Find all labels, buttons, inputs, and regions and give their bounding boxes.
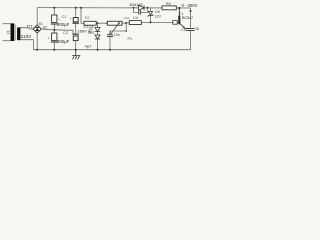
bridge rectifier B1 diamond	[33, 25, 41, 33]
svg-text:BC547: BC547	[182, 16, 193, 20]
node wiper corner	[125, 30, 127, 32]
transformer Tr1 secondary winding	[17, 27, 20, 40]
transistor T1	[177, 8, 190, 29]
svg-text:10k: 10k	[133, 16, 139, 20]
wire mains bottom lead	[3, 40, 11, 42]
capacitor C3	[70, 8, 79, 34]
bridge inner diode	[35, 28, 39, 31]
wire R4 to base	[141, 21, 173, 23]
capacitor C5	[107, 31, 113, 50]
zener D2	[95, 35, 100, 39]
wire secondary bottom to ground rail	[20, 40, 33, 50]
node D6 bottom	[150, 21, 152, 23]
svg-text:C6: C6	[181, 28, 186, 32]
svg-text:9V1: 9V1	[88, 31, 95, 35]
svg-text:1N4148: 1N4148	[129, 3, 142, 7]
svg-text:+: +	[70, 17, 72, 21]
node zener tap	[97, 22, 99, 24]
zener D1	[95, 28, 100, 32]
diode D5 on rail	[139, 5, 144, 10]
svg-text:0 - 300V: 0 - 300V	[182, 3, 198, 8]
wire bridge AC2 / midline to C3C4 midpoint	[41, 29, 75, 34]
node ground C4	[75, 49, 77, 51]
wire secondary top to bridge	[20, 28, 33, 29]
resistor R2 feed wire	[81, 8, 84, 23]
ground symbol (M)	[72, 50, 80, 60]
node rail loop right	[147, 7, 149, 9]
node output	[190, 10, 192, 12]
svg-text:4µ7: 4µ7	[85, 44, 93, 49]
transformer core	[15, 25, 17, 41]
wire mains top lead	[3, 23, 11, 25]
transformer Tr1 primary winding	[11, 23, 15, 41]
wire ground rail	[33, 49, 190, 51]
resistor R8 on rail	[162, 6, 176, 10]
svg-text:300µF: 300µF	[57, 22, 70, 27]
node rail C1	[53, 7, 55, 9]
node bridge-minus	[36, 49, 38, 51]
mains marks	[7, 31, 10, 33]
potentiometer P1	[107, 21, 122, 25]
svg-text:R2: R2	[85, 16, 90, 20]
node midline C1C2	[53, 29, 55, 31]
resistor R2	[84, 21, 96, 25]
node C5 ground	[109, 49, 111, 51]
svg-text:+: +	[47, 37, 49, 41]
svg-text:P1: P1	[128, 37, 133, 41]
wire bridge bottom to ground rail	[36, 33, 38, 50]
node rail R2	[80, 7, 82, 9]
zener D6	[148, 8, 153, 22]
wire rail to output corner	[190, 8, 192, 28]
capacitor C2	[47, 33, 57, 50]
wire wiper down and left to C5	[110, 23, 126, 31]
svg-text:R4: R4	[124, 16, 129, 20]
svg-text:R8: R8	[166, 2, 171, 6]
svg-text:1µ: 1µ	[195, 27, 200, 31]
svg-text:C1: C1	[62, 15, 67, 19]
capacitor C1	[51, 8, 60, 33]
node pot left	[106, 22, 108, 24]
node collector tap	[178, 7, 180, 9]
resistor R4	[129, 21, 141, 25]
capacitor bypass loop under D5	[134, 8, 148, 15]
zener chain wire	[97, 23, 99, 50]
node rail C3	[75, 7, 77, 9]
capacitor C6 output	[186, 29, 194, 50]
svg-text:210V: 210V	[21, 34, 33, 39]
svg-text:300µF: 300µF	[57, 39, 70, 44]
wire top rail	[37, 7, 190, 9]
svg-text:D6: D6	[155, 10, 160, 14]
capacitor C4	[72, 34, 79, 50]
node zener ground	[97, 49, 99, 51]
wire R2 to pot	[96, 22, 107, 24]
base resistor box	[173, 21, 177, 25]
svg-text:C2: C2	[63, 31, 68, 35]
svg-text:12V: 12V	[154, 15, 161, 19]
svg-text:+: +	[58, 17, 60, 21]
pot wiper arrow	[111, 22, 120, 34]
svg-text:Tr1: Tr1	[27, 24, 34, 29]
node rail loop left	[133, 7, 135, 9]
wire bridge top to rail	[36, 8, 38, 25]
node wiper junction	[125, 22, 127, 24]
node ground C2	[53, 49, 55, 51]
wire pot to R4	[122, 22, 129, 24]
svg-text:10n: 10n	[114, 33, 120, 37]
